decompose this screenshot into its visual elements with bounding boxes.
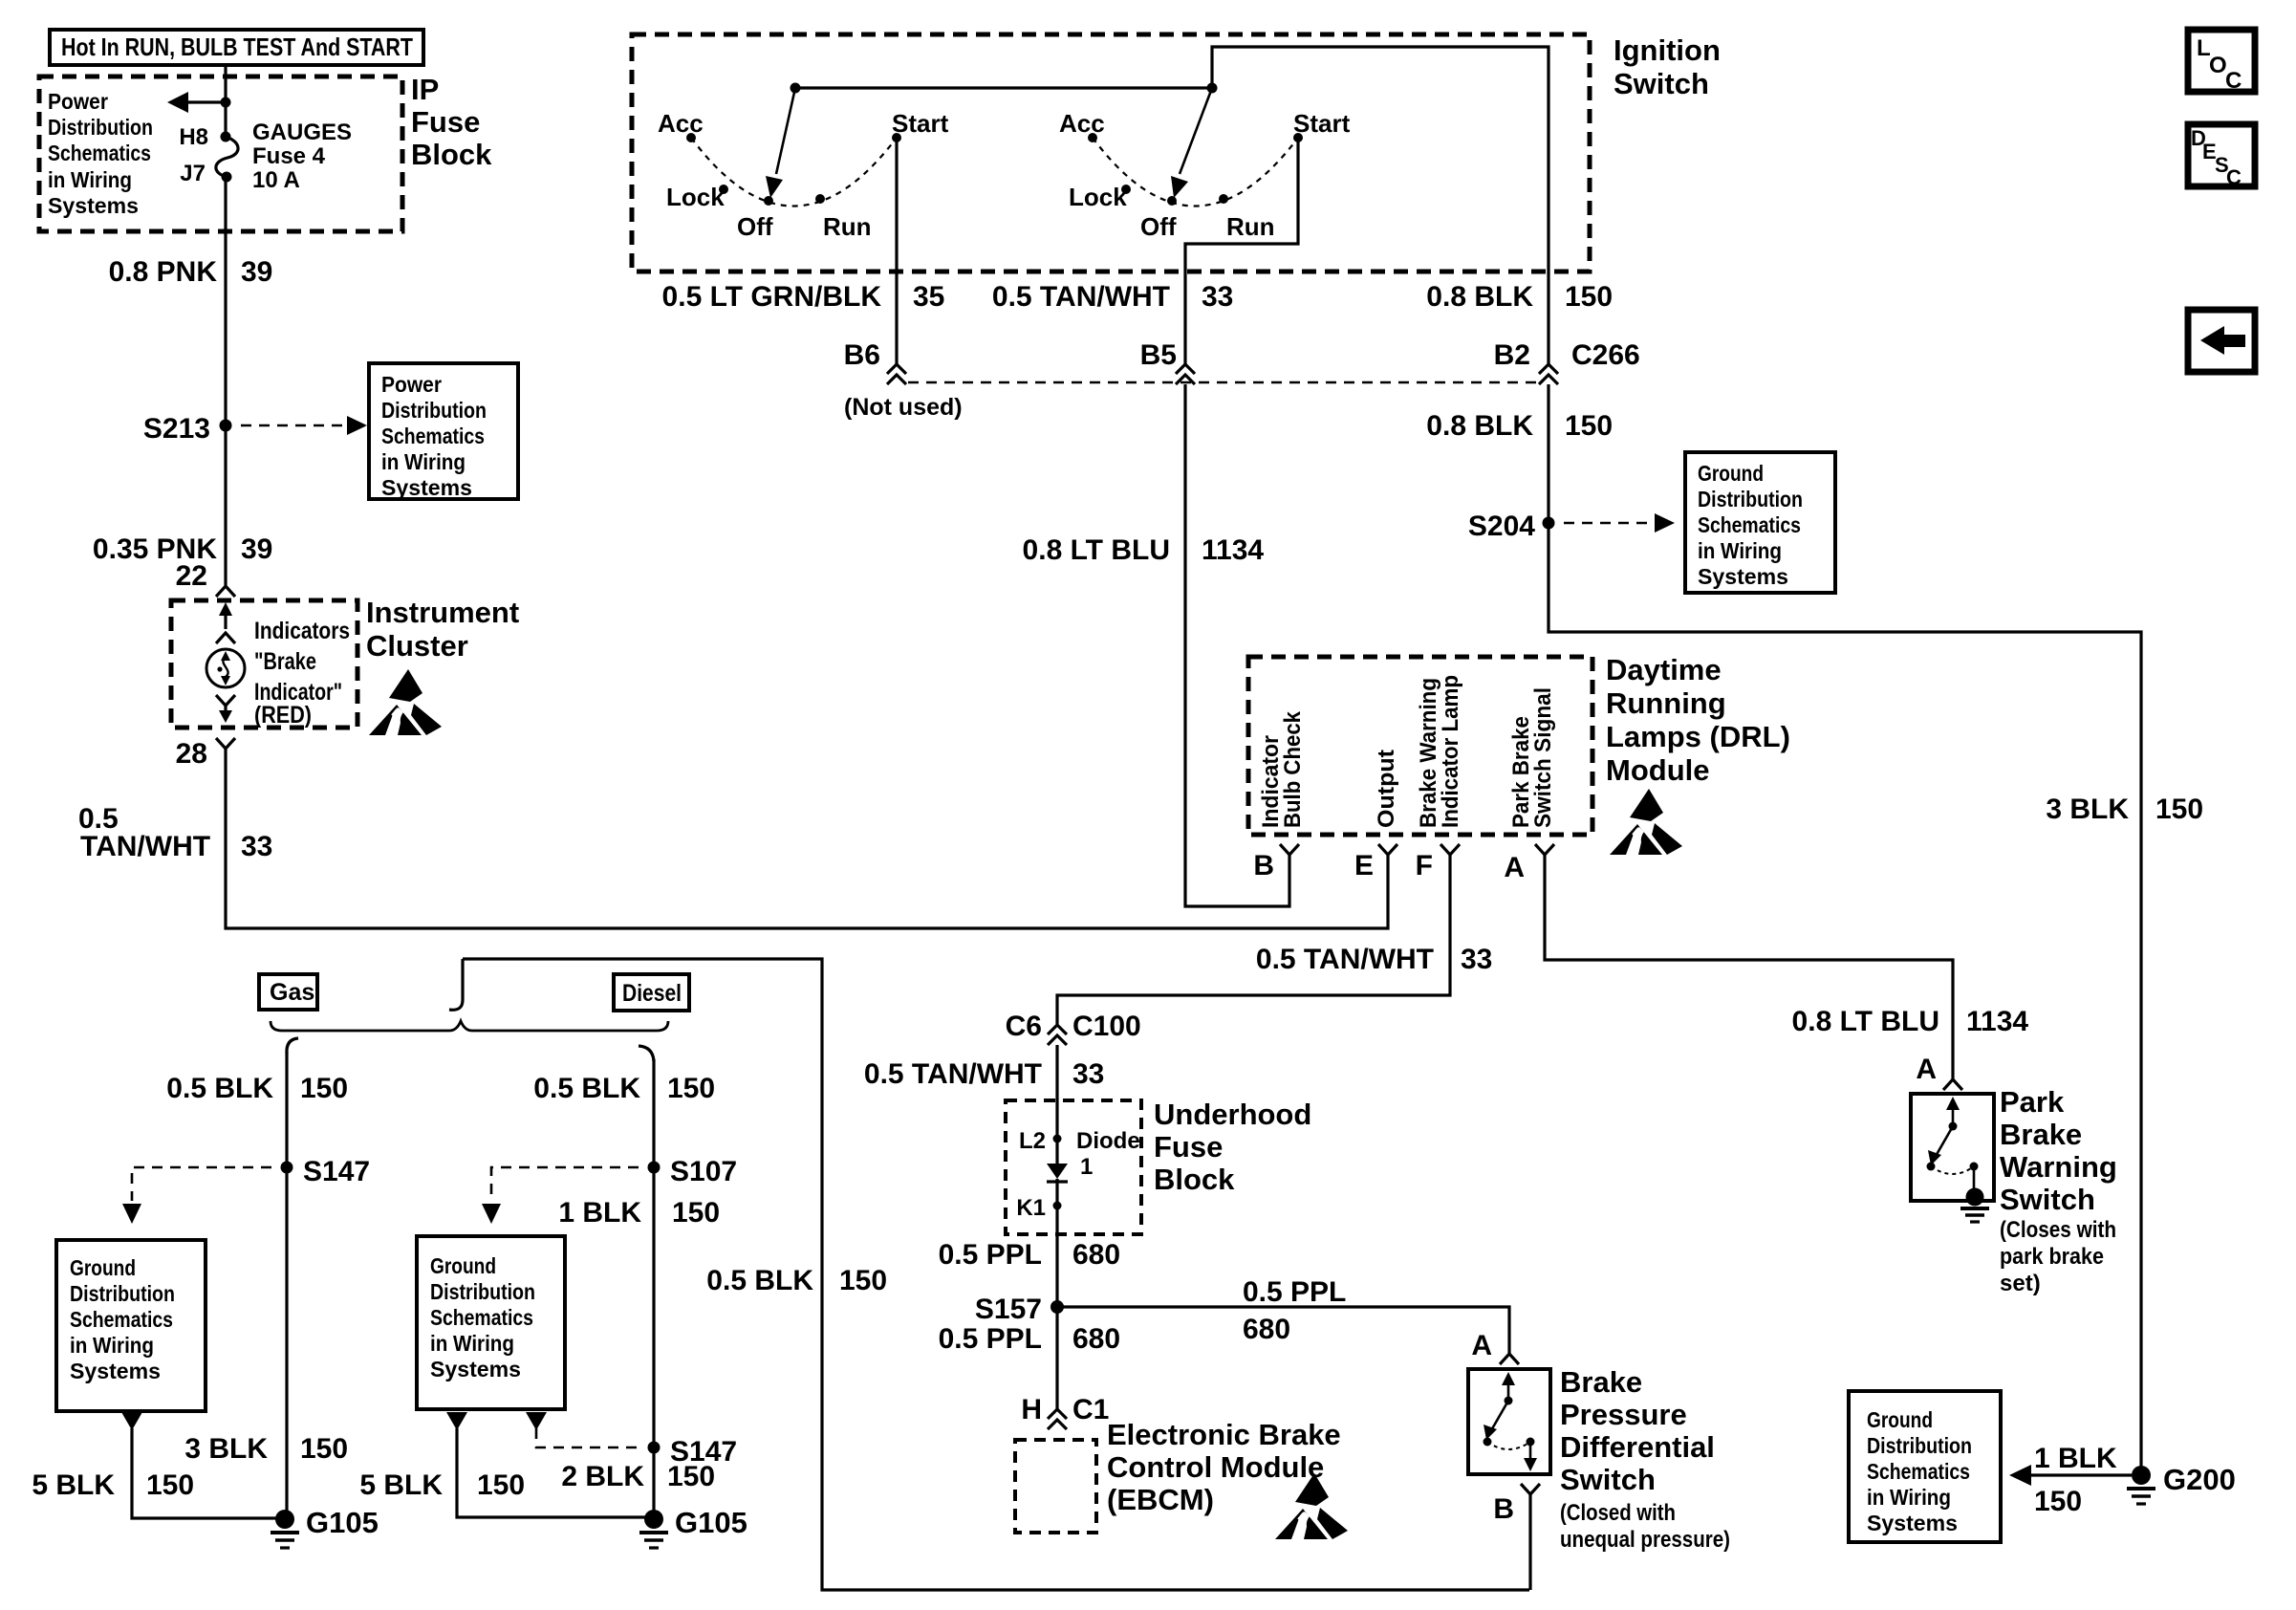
svg-text:Diesel: Diesel [622,980,682,1007]
svg-text:Distribution: Distribution [430,1279,535,1304]
svg-text:Start: Start [1293,109,1351,138]
wire: diode K1 down to S157 [1055,1179,1058,1409]
svg-text:Schematics: Schematics [430,1305,533,1330]
svg-text:C: C [2225,68,2242,94]
svg-text:S147: S147 [303,1156,370,1187]
wire: DRL pin F down and left to C100 [1057,855,1450,1024]
contact Lock (sw1) [719,185,728,194]
svg-text:0.5 BLK: 0.5 BLK [706,1265,813,1296]
dashed reference wire from S213 [241,424,346,427]
svg-text:(Not used): (Not used) [844,394,963,421]
arrowhead out of ground box (diesel right) [526,1412,547,1430]
ignition switch section 2 rotary arc [1093,138,1298,207]
svg-text:Bulb Check: Bulb Check [1280,710,1306,828]
wire: B5 down to DRL pin B [1185,384,1289,906]
IP Fuse Block dashed box [39,76,402,231]
wire label 0.5 TAN/WHT 33 (pin F) [1256,944,1492,975]
svg-text:B6: B6 [844,339,880,371]
svg-text:Lock: Lock [1069,183,1127,211]
connector C266 pin B6 [844,339,906,384]
svg-text:Schematics: Schematics [381,424,485,448]
svg-text:(RED): (RED) [254,702,312,729]
terminal H8 [221,132,231,142]
Park Brake Warning Switch label [2000,1085,2117,1216]
note: Indicators "Brake Indicator" (RED) [254,618,350,729]
wire label 0.5 TAN/WHT 33 (cluster output) [78,803,272,862]
svg-text:0.5 PPL: 0.5 PPL [939,1323,1042,1355]
svg-text:150: 150 [146,1469,194,1501]
svg-text:A: A [1504,852,1525,883]
contact Acc (sw1) [686,133,696,142]
svg-text:Differential: Differential [1560,1430,1715,1464]
wire: diesel branch down to G105 [652,1059,655,1519]
svg-text:L2: L2 [1019,1128,1046,1154]
IP Fuse Block label [411,73,492,171]
svg-text:Block: Block [411,138,492,171]
svg-text:Run: Run [1226,212,1275,241]
DRL label: Daytime Running Lamps (DRL) Module [1606,653,1790,787]
Brake Pressure Differential Switch label [1560,1365,1715,1496]
svg-text:150: 150 [300,1433,348,1465]
svg-text:Off: Off [1140,212,1177,241]
DRL pin function label: Park Brake Switch Signal [1508,687,1556,828]
svg-text:0.8 LT BLU: 0.8 LT BLU [1023,534,1170,566]
wire: pin 28 down and across to DRL pin E [226,749,1388,928]
contact Run (sw2) [1219,194,1228,204]
wire: ground box lead to G105 (gas) [132,1428,285,1518]
connector chevron inside cluster top [216,633,235,643]
svg-text:Ground: Ground [430,1253,496,1278]
note: (Closes with park brake set) [2000,1217,2116,1296]
svg-text:0.8 BLK: 0.8 BLK [1426,281,1533,313]
EBCM label [1107,1418,1341,1516]
note: Power Distribution Schematics in Wiring Systems [48,89,153,218]
wire label 3 BLK 150 (gas) [184,1433,348,1465]
svg-text:B: B [1253,850,1274,881]
svg-text:B: B [1493,1493,1514,1525]
switch pin B chevron and label [1493,1484,1540,1525]
wire label 0.5 TAN/WHT 33 [992,281,1233,313]
svg-text:0.5 BLK: 0.5 BLK [166,1073,273,1104]
Instrument Cluster label [366,596,519,663]
arrowhead to ground distribution box [1655,513,1675,533]
Brake Pressure Differential Switch box [1468,1369,1550,1474]
svg-text:10 A: 10 A [252,167,300,193]
svg-text:Systems: Systems [1867,1511,1958,1535]
svg-text:G105: G105 [675,1506,747,1539]
svg-text:C: C [2226,165,2242,189]
contact Start (sw1) [892,133,901,142]
svg-text:"Brake: "Brake [254,648,316,675]
wiper arm sw1 pointing at Off [776,88,795,174]
splice S204 [1543,517,1555,530]
svg-text:150: 150 [1565,410,1613,442]
svg-text:5 BLK: 5 BLK [359,1469,443,1501]
wire label 0.5 PPL 680 (above S157) [939,1239,1120,1271]
fuse value label: GAUGES Fuse 4 10 A [252,120,352,193]
Electronic Brake Control Module dashed box [1015,1440,1096,1533]
wire label 0.5 BLK 150 (switch return) [706,1265,887,1296]
arrowhead to power distribution [167,92,188,113]
LOC icon box [2188,30,2255,94]
svg-text:1134: 1134 [1202,534,1264,566]
svg-text:Systems: Systems [48,193,139,218]
wire label 0.8 PNK 39 [109,256,273,288]
svg-text:Electronic Brake: Electronic Brake [1107,1418,1341,1451]
svg-text:150: 150 [1565,281,1613,313]
wire: C100 down into underhood fuse block [1055,1045,1058,1164]
diode D1 [1047,1164,1068,1182]
DRL pin function label: Indicator Bulb Check [1258,710,1306,828]
brake pressure differential switch element [1484,1372,1538,1471]
svg-text:0.8 PNK: 0.8 PNK [109,256,218,288]
wire: branch to power distribution [185,100,226,103]
svg-text:150: 150 [2155,794,2203,825]
svg-text:Systems: Systems [430,1357,521,1382]
svg-text:Indicators: Indicators [254,618,350,644]
svg-text:IP: IP [411,73,439,106]
wire label 5 BLK 150 (diesel) [359,1469,525,1501]
svg-text:in Wiring: in Wiring [381,449,466,474]
svg-text:C1: C1 [1072,1394,1109,1425]
svg-text:in Wiring: in Wiring [48,167,132,192]
svg-text:0.5 TAN/WHT: 0.5 TAN/WHT [1256,944,1434,975]
arrowhead into ground distribution box (gas) [122,1204,141,1224]
svg-text:22: 22 [176,560,207,592]
svg-text:680: 680 [1072,1239,1120,1271]
svg-text:Running: Running [1606,686,1726,720]
svg-text:0.5 LT GRN/BLK: 0.5 LT GRN/BLK [662,281,882,313]
svg-text:680: 680 [1243,1314,1290,1345]
svg-text:Cluster: Cluster [366,629,468,663]
svg-text:Switch: Switch [1560,1463,1656,1496]
svg-text:39: 39 [241,533,272,565]
svg-text:set): set) [2000,1271,2041,1296]
svg-text:Systems: Systems [381,475,472,500]
terminal L2 [1019,1128,1062,1154]
svg-text:Lock: Lock [666,183,725,211]
svg-text:Fuse: Fuse [411,105,480,139]
wire label 0.5 PPL 680 (S157 branch) [1243,1276,1346,1345]
connector C266 pin B2 [1494,339,1558,384]
svg-text:150: 150 [667,1073,715,1104]
svg-text:(Closed with: (Closed with [1560,1500,1676,1526]
svg-text:O: O [2209,53,2227,78]
pin 28 exit arrow inside cluster [219,706,232,723]
svg-text:Acc: Acc [658,109,704,138]
feed label box: Hot In RUN, BULB TEST And START [50,30,423,65]
svg-text:33: 33 [241,831,272,862]
svg-text:G105: G105 [306,1506,379,1539]
reference box: Ground Distribution Schematics in Wiring Systems (diesel) [417,1236,565,1409]
wire: S157 right to brake pressure differential switch pin A [1057,1307,1509,1354]
wire: DRL pin A right to park brake switch [1545,855,1953,1079]
ground G105 (diesel) [639,1506,747,1548]
wiper arm sw2 pointing at Off [1180,88,1212,174]
Ignition Switch dashed box [632,34,1590,272]
wire: feed into fuse [224,64,227,137]
splice S147 [281,1162,293,1174]
Underhood Fuse Block dashed box [1006,1100,1141,1234]
svg-text:B2: B2 [1494,339,1530,371]
svg-text:H8: H8 [179,124,208,150]
svg-text:B5: B5 [1140,339,1177,371]
wire: pivot bus between switch sections [795,86,1212,89]
Gas tag box [259,974,317,1010]
svg-text:2 BLK: 2 BLK [561,1461,644,1492]
DRL pin function label: Brake Warning Indicator Lamp [1416,675,1463,828]
svg-text:C6: C6 [1006,1011,1042,1042]
svg-text:Park: Park [2000,1085,2065,1119]
svg-text:150: 150 [477,1469,525,1501]
svg-text:Gas: Gas [270,979,314,1006]
contact Off (sw1) [764,196,773,206]
reference box: Ground Distribution Schematics in Wiring Systems (G200) [1849,1391,2001,1542]
svg-text:Brake: Brake [2000,1118,2082,1151]
svg-text:28: 28 [176,738,207,770]
svg-text:Schematics: Schematics [1698,512,1801,537]
svg-text:Fuse 4: Fuse 4 [252,143,326,169]
ground G105 (gas) [271,1506,379,1548]
svg-text:Diode: Diode [1076,1128,1140,1154]
svg-text:A: A [1916,1054,1937,1085]
ESD symbol (DRL module) [1610,789,1682,855]
splice S213 [220,420,232,432]
ground at park brake switch [1960,1188,1989,1223]
svg-text:K1: K1 [1016,1195,1046,1221]
svg-text:Start: Start [892,109,949,138]
wire label 2 BLK 150 (diesel) [561,1461,715,1492]
brake pressure differential switch pin A chevron and label [1471,1330,1519,1364]
wire label 0.8 BLK 150 (below C266) [1426,410,1613,442]
svg-text:Ground: Ground [1867,1407,1933,1432]
wire: fuse output down to pin 22 [224,177,227,585]
svg-text:0.8 BLK: 0.8 BLK [1426,410,1533,442]
connector chevron below cluster pin 28 [216,738,235,749]
wire label 0.35 PNK 39 [93,533,272,565]
svg-text:Power: Power [48,89,108,114]
DESC icon box [2188,124,2255,189]
gas branch hook [287,1038,298,1054]
svg-text:0.5 BLK: 0.5 BLK [533,1073,640,1104]
DRL pin F chevron and label [1416,844,1460,881]
wire label 0.8 LT BLU 1134 [1023,534,1265,566]
svg-text:150: 150 [839,1265,887,1296]
svg-text:in Wiring: in Wiring [70,1333,154,1358]
bulb: Brake Indicator lamp [206,649,245,687]
svg-text:A: A [1471,1330,1492,1361]
svg-text:39: 39 [241,256,272,288]
ESD symbol (instrument cluster) [369,669,442,735]
wire label 1 BLK 150 (G200) [2034,1443,2117,1517]
svg-text:Distribution: Distribution [70,1281,175,1306]
ground G200 [2127,1463,2236,1504]
diesel branch hook [639,1046,654,1061]
brace feeder hook [449,959,463,1010]
svg-text:Brake: Brake [1560,1365,1642,1399]
Daytime Running Lamps (DRL) Module dashed box [1248,657,1592,835]
svg-text:0.5 TAN/WHT: 0.5 TAN/WHT [992,281,1170,313]
DRL pin E chevron and label [1354,844,1397,881]
svg-text:Instrument: Instrument [366,596,519,629]
svg-text:Switch Signal: Switch Signal [1530,687,1556,828]
wire label 3 BLK 150 [2046,794,2203,825]
contact Lock (sw2) [1121,185,1131,194]
svg-text:Systems: Systems [1698,564,1788,589]
svg-text:Distribution: Distribution [48,115,153,140]
wire label 0.5 BLK 150 (gas) [166,1073,348,1104]
svg-text:1 BLK: 1 BLK [2034,1443,2117,1474]
svg-text:in Wiring: in Wiring [1867,1485,1951,1510]
wire label 1 BLK 150 (diesel) [558,1197,720,1229]
splice S147 (diesel branch) [648,1442,661,1454]
svg-text:0.5 TAN/WHT: 0.5 TAN/WHT [864,1058,1042,1090]
wire label 0.5 BLK 150 (diesel) [533,1073,715,1104]
wire label 0.8 LT BLU 1134 (park brake) [1792,1006,2029,1037]
svg-text:Acc: Acc [1059,109,1105,138]
reference box: Ground Distribution Schematics in Wiring Systems (S204) [1685,452,1835,593]
connector C266 pin B5 [1140,339,1195,384]
Diesel tag box [614,974,689,1011]
svg-text:3 BLK: 3 BLK [184,1433,268,1465]
Ignition Switch label [1614,33,1721,100]
svg-text:Ground: Ground [70,1255,136,1280]
fuse F4 GAUGES 10A element [216,137,238,177]
svg-text:J7: J7 [180,161,206,186]
arrowhead out of ground box (gas) [121,1412,142,1430]
connector chevron above cluster pin 22 [216,586,235,597]
park brake switch pin A chevron and label [1916,1054,1962,1090]
park brake switch element [1927,1097,1979,1190]
svg-text:33: 33 [1202,281,1233,313]
svg-text:Run: Run [823,212,872,241]
svg-text:S204: S204 [1468,511,1535,542]
wire label 5 BLK 150 (gas) [32,1469,194,1501]
Diode 1 label [1076,1128,1140,1180]
svg-text:S157: S157 [975,1294,1042,1325]
wire: sw1 Start down to B6 [895,138,898,365]
junction node on feed [221,98,231,108]
pivot node sw1 [791,83,801,94]
svg-text:Ground: Ground [1698,461,1764,486]
svg-text:Switch: Switch [2000,1183,2095,1216]
svg-text:3 BLK: 3 BLK [2046,794,2129,825]
svg-text:Output: Output [1374,750,1399,828]
svg-text:150: 150 [300,1073,348,1104]
svg-text:in Wiring: in Wiring [430,1331,514,1356]
wire: pin B down to return line [1528,1494,1531,1590]
svg-text:(Closes with: (Closes with [2000,1217,2116,1243]
wire: gas branch down to G105 [285,1052,288,1519]
contact Off (sw2) [1167,196,1177,206]
back-arrow icon box [2188,310,2255,372]
pin 22 entry arrow inside cluster [219,602,232,629]
svg-text:Distribution: Distribution [1698,487,1803,511]
connector chevron inside cluster bottom [216,695,235,706]
svg-text:Systems: Systems [70,1359,161,1383]
svg-text:Schematics: Schematics [1867,1459,1970,1484]
DRL pin A chevron and label [1504,844,1554,883]
svg-text:150: 150 [667,1461,715,1492]
Park Brake Warning Switch box [1911,1094,1994,1201]
svg-text:33: 33 [1461,944,1492,975]
wire: B2 ground path down right and to G200 [1549,384,2141,1475]
dashed connector line C266 [908,381,1537,384]
svg-text:1134: 1134 [1966,1006,2028,1037]
svg-text:Ignition: Ignition [1614,33,1721,67]
svg-text:S107: S107 [670,1156,737,1187]
svg-text:Off: Off [737,212,773,241]
svg-text:0.5 PPL: 0.5 PPL [939,1239,1042,1271]
terminal K1 [1016,1195,1061,1221]
svg-text:in Wiring: in Wiring [1698,538,1782,563]
connector C100 pin C6 [1006,1011,1141,1045]
arrowhead into ground distribution box (G200) [2009,1465,2031,1486]
dashed reference wire from S107 [491,1167,639,1201]
svg-text:park brake: park brake [2000,1244,2104,1270]
svg-text:Daytime: Daytime [1606,653,1722,686]
wire: cluster output drop to gas/diesel brace and switch return [463,959,1529,1590]
dashed reference wire from S204 [1564,522,1654,525]
svg-text:Pressure: Pressure [1560,1398,1687,1431]
svg-text:33: 33 [1072,1058,1104,1090]
ESD symbol (EBCM) [1275,1473,1348,1539]
svg-text:Underhood: Underhood [1154,1098,1311,1131]
svg-text:150: 150 [2034,1486,2082,1517]
svg-text:(EBCM): (EBCM) [1107,1483,1214,1516]
brace spanning gas and diesel branches [271,1021,668,1031]
wire label 0.5 PPL 680 (below S157) [939,1323,1120,1355]
arrowhead to power distribution box [347,416,367,435]
wire: ground box lead to G105 (diesel) [457,1428,654,1517]
reference box: Power Distribution Schematics in Wiring Systems [369,363,518,500]
svg-text:Distribution: Distribution [1867,1433,1972,1458]
svg-text:Indicator Lamp: Indicator Lamp [1438,675,1463,828]
wire: pivot bus up and over to battery side [1212,47,1549,365]
wire label 0.5 LT GRN/BLK 35 [662,281,945,313]
Underhood Fuse Block label [1154,1098,1311,1196]
svg-text:Distribution: Distribution [381,398,487,423]
svg-text:Schematics: Schematics [48,141,151,165]
svg-text:F: F [1416,850,1433,881]
reference box: Ground Distribution Schematics in Wiring Systems (gas) [56,1240,206,1411]
svg-text:1: 1 [1080,1154,1093,1180]
wire: G200 to ground distribution reference [2030,1473,2132,1476]
svg-text:0.8 LT BLU: 0.8 LT BLU [1792,1006,1939,1037]
svg-text:Fuse: Fuse [1154,1130,1223,1164]
splice S157 [1051,1300,1064,1314]
wire: sw2 Start down jog to B5 [1185,138,1298,365]
Instrument Cluster dashed box [171,600,357,728]
contact Acc (sw2) [1088,133,1097,142]
svg-text:GAUGES: GAUGES [252,120,352,145]
connector C1 pin H [1021,1394,1109,1429]
pivot node sw2 [1207,83,1218,94]
svg-text:1 BLK: 1 BLK [558,1197,641,1229]
ignition switch section 1 rotary arc [691,138,897,207]
svg-text:Block: Block [1154,1163,1235,1196]
svg-text:35: 35 [913,281,944,313]
svg-text:Warning: Warning [2000,1150,2117,1184]
wire label 0.5 TAN/WHT 33 (to underhood) [864,1058,1104,1090]
splice S107 [648,1162,661,1174]
arrowhead out of ground box (diesel left) [446,1412,467,1430]
svg-text:680: 680 [1072,1323,1120,1355]
DRL pin B chevron and label [1253,844,1299,881]
dashed reference wire from S147 [132,1167,271,1201]
svg-text:S213: S213 [143,413,210,445]
svg-text:Control Module: Control Module [1107,1450,1324,1484]
